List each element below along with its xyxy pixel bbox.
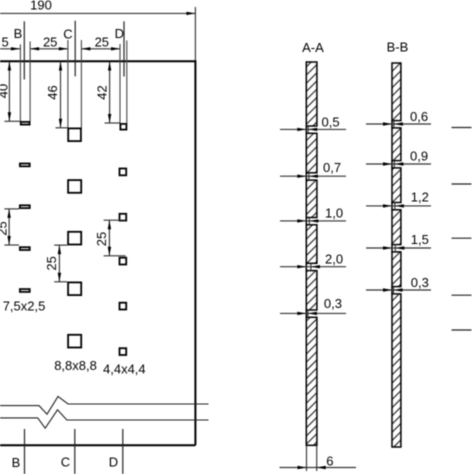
svg-text:0,6: 0,6: [410, 109, 428, 124]
svg-text:1,0: 1,0: [325, 205, 343, 220]
svg-text:8,8x8,8: 8,8x8,8: [54, 358, 97, 373]
svg-text:190: 190: [30, 0, 52, 13]
svg-text:7,5x2,5: 7,5x2,5: [3, 298, 46, 313]
svg-text:25: 25: [95, 34, 109, 49]
svg-text:1,5: 1,5: [411, 232, 429, 247]
svg-text:0,5: 0,5: [322, 115, 340, 130]
svg-text:25: 25: [44, 256, 59, 270]
svg-text:25: 25: [94, 232, 109, 246]
svg-text:D: D: [115, 26, 124, 41]
svg-text:4,4x4,4: 4,4x4,4: [103, 361, 146, 376]
svg-text:B: B: [14, 26, 23, 41]
svg-text:6: 6: [326, 454, 333, 469]
svg-text:0,3: 0,3: [411, 275, 429, 290]
svg-text:0,7: 0,7: [323, 160, 341, 175]
svg-text:D: D: [109, 455, 118, 470]
svg-text:B: B: [12, 455, 21, 470]
svg-text:B-B: B-B: [387, 39, 409, 54]
svg-text:42: 42: [95, 85, 110, 99]
svg-text:0,9: 0,9: [410, 149, 428, 164]
svg-text:40: 40: [0, 84, 11, 98]
svg-text:25: 25: [0, 221, 10, 235]
svg-text:46: 46: [45, 85, 60, 99]
svg-text:A-A: A-A: [302, 40, 324, 55]
svg-text:C: C: [61, 455, 70, 470]
svg-text:5: 5: [2, 34, 9, 49]
svg-text:C: C: [63, 27, 72, 42]
svg-text:25: 25: [43, 34, 57, 49]
svg-text:0,3: 0,3: [324, 296, 342, 311]
svg-text:1,2: 1,2: [411, 189, 429, 204]
svg-text:2,0: 2,0: [325, 252, 343, 267]
